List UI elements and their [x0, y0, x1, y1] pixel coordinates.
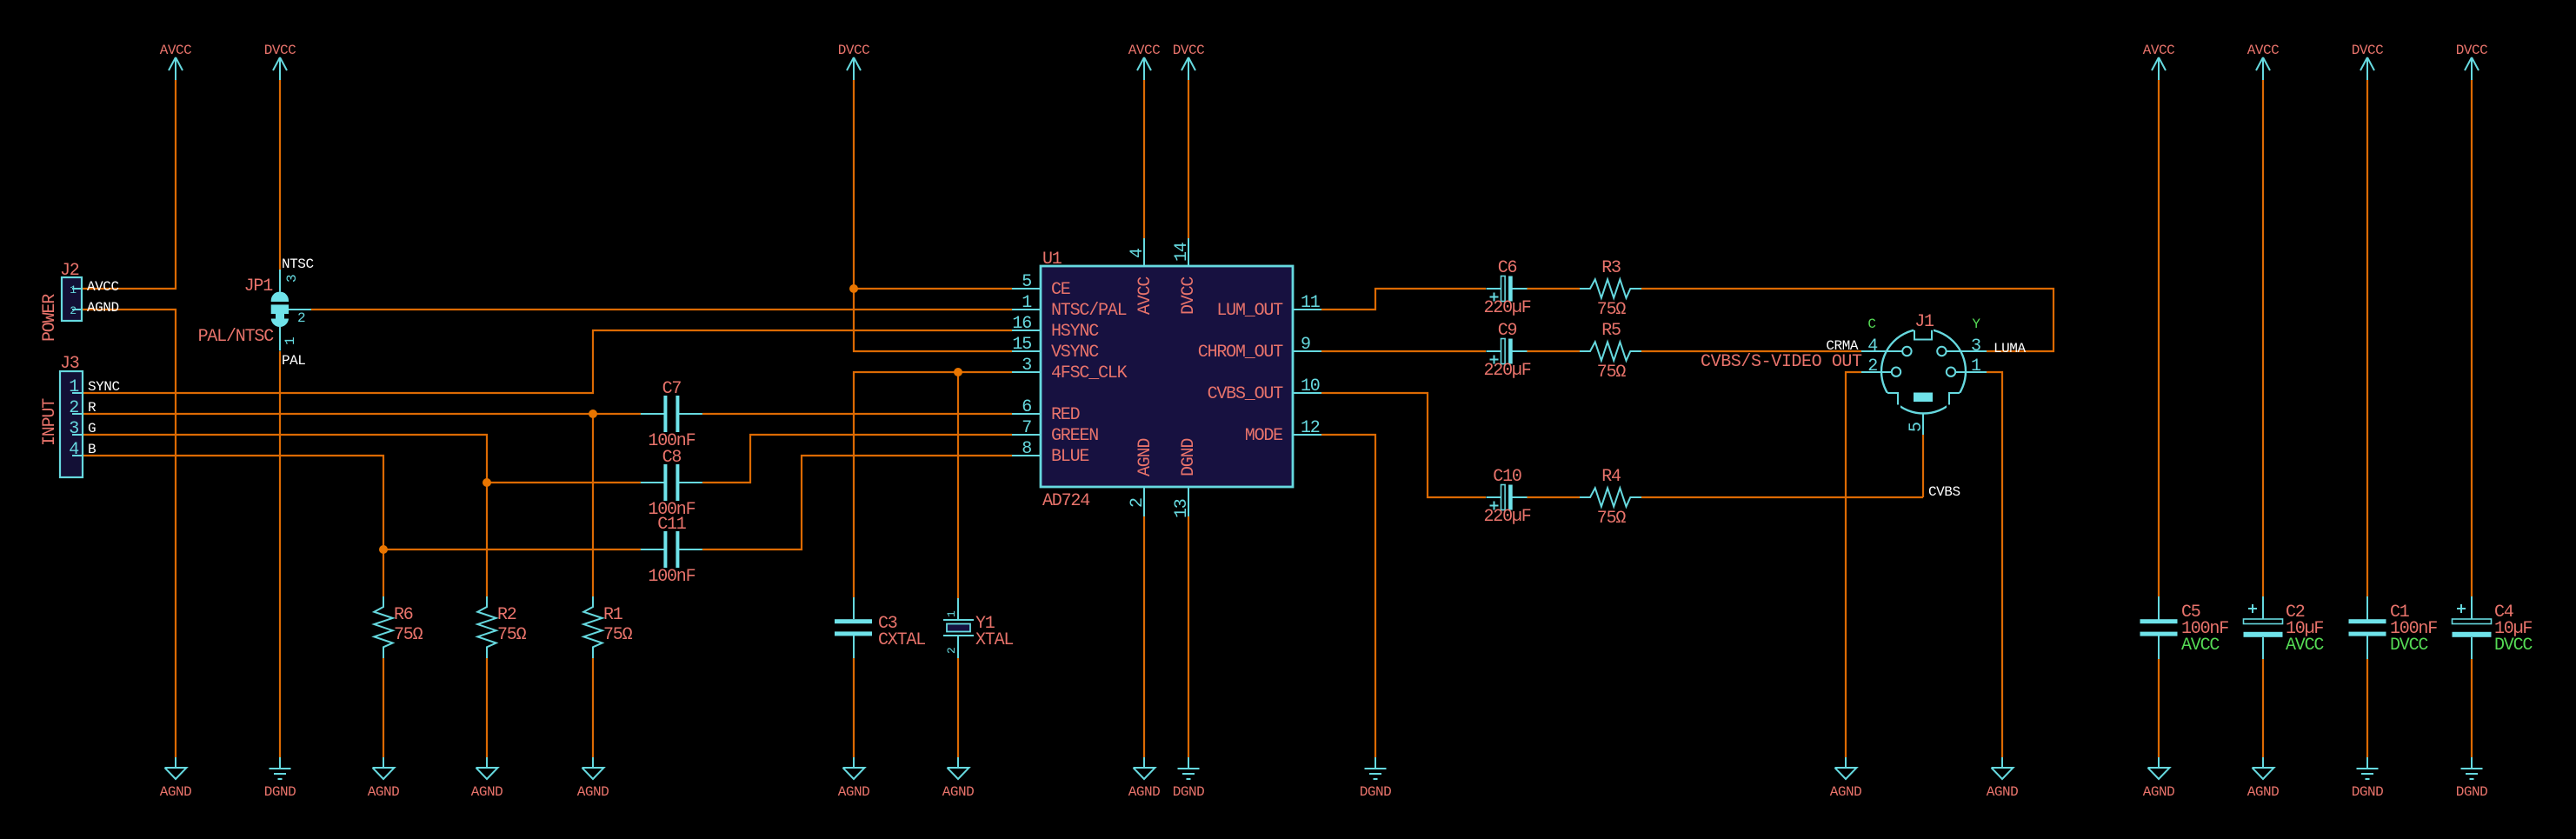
resistor R3 75R: [1580, 258, 1641, 320]
U1 pin 15 VSYNC: [1012, 335, 1099, 363]
svg-text:G: G: [88, 421, 96, 436]
svg-text:JP1: JP1: [244, 276, 274, 296]
svg-text:C10: C10: [1493, 467, 1521, 487]
wire DVCC to U1 pin14: [1188, 80, 1189, 238]
wire C9 to R5: [1527, 350, 1580, 352]
wire SYNC to HSYNC: [83, 330, 1012, 393]
wire DVCC rail to VSYNC: [854, 80, 1012, 351]
wire AVCC rail C2: [2262, 80, 2264, 596]
svg-text:1: 1: [1971, 356, 1981, 376]
ground DGND: [1173, 757, 1205, 800]
ground AGND: [368, 757, 400, 800]
svg-text:DGND: DGND: [1179, 439, 1199, 476]
svg-text:DVCC: DVCC: [1179, 276, 1199, 315]
svg-text:U1: U1: [1042, 250, 1062, 270]
svg-text:NTSC/PAL: NTSC/PAL: [1051, 301, 1127, 321]
svg-text:DVCC: DVCC: [838, 43, 870, 58]
svg-text:2: 2: [70, 304, 77, 317]
svg-text:CVBS_OUT: CVBS_OUT: [1208, 384, 1284, 404]
svg-text:5: 5: [1022, 272, 1031, 292]
svg-text:220µF: 220µF: [1483, 507, 1530, 527]
svg-text:12: 12: [1301, 418, 1320, 438]
svg-text:6: 6: [1022, 397, 1031, 417]
svg-text:B: B: [88, 442, 96, 457]
capacitor C3 CXTAL: [835, 597, 925, 658]
svg-text:3: 3: [69, 419, 78, 439]
svg-text:75Ω: 75Ω: [394, 625, 423, 645]
capacitor C6 220uF: [1483, 258, 1530, 318]
svg-text:BLUE: BLUE: [1051, 447, 1088, 467]
svg-text:AVCC: AVCC: [87, 279, 119, 295]
U1 pin 5 CE: [1012, 272, 1070, 300]
svg-text:R4: R4: [1601, 467, 1621, 487]
svg-text:2: 2: [1128, 498, 1148, 508]
wire Y1 to 4FSC node: [957, 372, 959, 598]
svg-text:10: 10: [1301, 376, 1320, 396]
svg-text:AVCC: AVCC: [2247, 43, 2280, 58]
U1 pin 2 AGND: [1128, 439, 1155, 516]
ground AGND: [1128, 757, 1161, 800]
svg-text:Y: Y: [1972, 316, 1980, 332]
capacitor C5 100nF: [2140, 596, 2229, 659]
svg-text:14: 14: [1172, 243, 1192, 262]
svg-text:AGND: AGND: [471, 784, 503, 800]
resistor R1 75R: [583, 596, 632, 658]
capacitor C1 100nF: [2349, 596, 2438, 659]
power flag DVCC: [2456, 43, 2488, 80]
svg-text:5: 5: [1907, 423, 1927, 432]
capacitor C9 220uF: [1483, 321, 1530, 381]
svg-text:R2: R2: [497, 605, 516, 625]
wire J1 pin1 to AGND: [1987, 372, 2002, 757]
svg-text:GREEN: GREEN: [1051, 426, 1098, 446]
svg-text:AVCC: AVCC: [2143, 43, 2175, 58]
svg-text:220µF: 220µF: [1483, 298, 1530, 318]
wire DVCC to JP1 pin3: [279, 80, 281, 270]
wire R6 to AGND: [383, 658, 384, 757]
wire R2 to AGND: [486, 658, 488, 757]
power flag DVCC: [838, 43, 870, 80]
wire JP1 pin1 PAL to DGND: [279, 351, 281, 757]
U1 pin 3 4FSC_CLK: [1012, 356, 1128, 383]
svg-text:MODE: MODE: [1245, 426, 1282, 446]
svg-text:DVCC: DVCC: [264, 43, 296, 58]
junction G/R2: [483, 478, 491, 487]
U1 pin 10 CVBS_OUT: [1208, 376, 1321, 404]
svg-text:HSYNC: HSYNC: [1051, 322, 1099, 342]
wire J1 pin5 to CVBS: [1922, 435, 1924, 497]
connector J3 INPUT: [40, 354, 120, 477]
svg-text:R: R: [88, 400, 97, 416]
svg-text:DVCC: DVCC: [2390, 636, 2428, 656]
wire G input: [83, 435, 641, 483]
wire C6 to R3: [1527, 288, 1580, 290]
power flag AVCC: [2143, 43, 2175, 80]
svg-text:CVBS/S-VIDEO OUT: CVBS/S-VIDEO OUT: [1701, 352, 1862, 372]
svg-text:J1: J1: [1914, 312, 1934, 332]
svg-text:AGND: AGND: [1128, 784, 1161, 800]
U1 pin 9 CHROM_OUT: [1198, 335, 1321, 363]
wire R5 to J1 pin4 CRMA: [1641, 350, 1861, 352]
power flag AVCC: [2247, 43, 2280, 80]
ground AGND: [471, 757, 503, 800]
svg-text:INPUT: INPUT: [40, 398, 60, 446]
capacitor C4 10uF: [2453, 596, 2533, 659]
svg-text:2: 2: [69, 398, 78, 418]
wire C8 to GREEN pin7: [702, 435, 1012, 483]
wire C7 to RED pin6: [702, 413, 1012, 415]
svg-text:8: 8: [1022, 439, 1031, 459]
wire DVCC rail C4: [2471, 80, 2473, 596]
ground AGND: [160, 757, 192, 800]
svg-text:C11: C11: [657, 515, 687, 535]
wire B to R6: [383, 549, 384, 596]
svg-text:2: 2: [297, 310, 306, 326]
wire U1 pin2 AGND: [1143, 516, 1145, 757]
ground AGND: [577, 757, 609, 800]
svg-text:AGND: AGND: [1830, 784, 1862, 800]
U1 pin 13 DGND: [1172, 439, 1199, 518]
U1 pin 8 BLUE: [1012, 439, 1088, 467]
wire R1 to AGND: [592, 658, 594, 757]
svg-text:LUMA: LUMA: [1994, 341, 2026, 356]
wire R3 to J1 pin3 LUMA: [1641, 289, 2053, 351]
power flag DVCC: [2352, 43, 2384, 80]
wire JP1 pin2 to NTSC/PAL pin1: [311, 309, 1012, 310]
wire C5 to AGND: [2158, 659, 2160, 757]
wire DVCC rail C1: [2366, 80, 2368, 596]
U1 pin 4 AVCC: [1128, 238, 1155, 315]
svg-text:C6: C6: [1498, 258, 1517, 278]
U1 pin 6 RED: [1012, 397, 1080, 425]
svg-text:3: 3: [1022, 356, 1031, 376]
svg-text:AGND: AGND: [838, 784, 870, 800]
net label CRMA: [1826, 338, 1858, 354]
wire J2 pin2 AGND down: [83, 310, 176, 757]
svg-text:XTAL: XTAL: [975, 630, 1013, 650]
svg-text:CHROM_OUT: CHROM_OUT: [1198, 343, 1283, 363]
ground AGND: [1830, 757, 1862, 800]
svg-text:AVCC: AVCC: [160, 43, 192, 58]
ground DGND: [1360, 757, 1392, 800]
net label CVBS: [1928, 484, 1960, 500]
svg-text:DVCC: DVCC: [2352, 43, 2384, 58]
svg-text:1: 1: [70, 283, 77, 296]
ground DGND: [2456, 757, 2488, 800]
svg-text:LUM_OUT: LUM_OUT: [1216, 301, 1283, 321]
junction 4FSC/Y1: [954, 368, 962, 376]
svg-text:7: 7: [1022, 418, 1031, 438]
ground DGND: [264, 757, 296, 800]
wire MODE to DGND: [1321, 435, 1375, 757]
capacitor C11 100nF: [641, 515, 702, 587]
svg-text:DGND: DGND: [264, 784, 296, 800]
capacitor C10 220uF: [1483, 467, 1530, 527]
svg-text:PAL: PAL: [282, 353, 305, 369]
svg-text:4FSC_CLK: 4FSC_CLK: [1051, 363, 1128, 383]
svg-text:J3: J3: [60, 354, 79, 374]
power flag AVCC: [1128, 43, 1161, 80]
resistor R2 75R: [477, 596, 526, 658]
capacitor C8 100nF: [641, 448, 702, 520]
svg-text:75Ω: 75Ω: [603, 625, 633, 645]
svg-text:VSYNC: VSYNC: [1051, 343, 1099, 363]
svg-text:11: 11: [1301, 293, 1321, 313]
svg-text:DGND: DGND: [1173, 784, 1205, 800]
resistor R4 75R: [1580, 467, 1641, 529]
svg-text:RED: RED: [1051, 405, 1080, 425]
net label LUMA: [1994, 341, 2026, 356]
wire C4 to DGND: [2471, 659, 2473, 757]
svg-text:100nF: 100nF: [648, 567, 695, 587]
wire C1 to DGND: [2366, 659, 2368, 757]
svg-text:DVCC: DVCC: [1173, 43, 1205, 58]
svg-text:R3: R3: [1601, 258, 1621, 278]
svg-text:C: C: [1867, 316, 1875, 332]
svg-text:SYNC: SYNC: [88, 379, 120, 395]
svg-text:AGND: AGND: [368, 784, 400, 800]
svg-text:C8: C8: [662, 448, 682, 468]
ground AGND: [838, 757, 870, 800]
svg-text:75Ω: 75Ω: [1597, 363, 1627, 383]
svg-text:AGND: AGND: [160, 784, 192, 800]
capacitor C7 100nF: [641, 379, 702, 451]
svg-text:AD724: AD724: [1042, 491, 1089, 511]
junction R/R1: [589, 410, 597, 418]
svg-text:AVCC: AVCC: [1128, 43, 1161, 58]
wire J1 pin2 to AGND: [1846, 372, 1861, 757]
svg-text:CVBS: CVBS: [1928, 484, 1960, 500]
power flag DVCC: [1173, 43, 1205, 80]
U1 pin 1 NTSC/PAL: [1012, 293, 1127, 321]
svg-text:3: 3: [1971, 336, 1980, 356]
svg-text:DGND: DGND: [2456, 784, 2488, 800]
text CVBS/S-VIDEO OUT: [1701, 352, 1862, 372]
svg-text:1: 1: [283, 336, 298, 345]
wire LUM_OUT to C6: [1321, 289, 1486, 310]
ground AGND: [2143, 757, 2175, 800]
svg-text:AGND: AGND: [2143, 784, 2175, 800]
wire CVBS_OUT to C10: [1321, 393, 1486, 497]
capacitor C2 10uF: [2244, 596, 2325, 659]
svg-text:DGND: DGND: [1360, 784, 1392, 800]
svg-text:AGND: AGND: [1987, 784, 2019, 800]
svg-text:C7: C7: [662, 379, 682, 399]
svg-text:220µF: 220µF: [1483, 361, 1530, 381]
ground AGND: [1987, 757, 2019, 800]
ground DGND: [2352, 757, 2384, 800]
svg-text:13: 13: [1172, 499, 1192, 518]
wire C3 to AGND: [853, 658, 855, 757]
power flag DVCC: [264, 43, 296, 80]
svg-text:2: 2: [1867, 356, 1877, 376]
svg-text:4: 4: [69, 440, 78, 460]
wire R4 to CVBS node: [1641, 496, 1923, 498]
wire B input: [83, 456, 641, 549]
svg-text:DGND: DGND: [2352, 784, 2384, 800]
U1 pin 7 GREEN: [1012, 418, 1098, 446]
IC U1 AD724: [1041, 250, 1293, 511]
svg-text:CE: CE: [1051, 280, 1070, 300]
svg-text:J2: J2: [60, 261, 79, 281]
svg-text:1: 1: [69, 377, 79, 397]
wire U1 pin13 DGND: [1188, 516, 1189, 757]
U1 pin 16 HSYNC: [1012, 314, 1099, 342]
svg-text:AGND: AGND: [87, 300, 119, 316]
ground AGND: [942, 757, 975, 800]
junction B/R6: [379, 545, 388, 554]
svg-text:CXTAL: CXTAL: [878, 630, 925, 650]
svg-text:2: 2: [945, 647, 958, 654]
wire AVCC rail to J2 pin1: [83, 80, 176, 289]
svg-text:R5: R5: [1601, 321, 1621, 341]
svg-text:C9: C9: [1498, 321, 1517, 341]
svg-text:AVCC: AVCC: [1135, 276, 1155, 315]
wire Y1 to AGND: [957, 658, 959, 757]
wire DVCC to CE pin5: [854, 288, 1012, 290]
connector J2 POWER: [40, 261, 119, 342]
wire CHROM_OUT to C9: [1321, 350, 1486, 352]
connector J1 CVBS/S-VIDEO OUT: [1861, 312, 1987, 435]
svg-text:16: 16: [1012, 314, 1031, 334]
wire C2 to AGND: [2262, 659, 2264, 757]
svg-text:AVCC: AVCC: [2286, 636, 2324, 656]
wire R input: [83, 413, 641, 415]
U1 pin 12 MODE: [1245, 418, 1321, 446]
svg-text:R6: R6: [394, 605, 413, 625]
wire C10 to R4: [1527, 496, 1580, 498]
ground AGND: [2247, 757, 2280, 800]
svg-text:AGND: AGND: [2247, 784, 2280, 800]
svg-text:NTSC: NTSC: [282, 256, 314, 272]
jumper JP1 PAL/NTSC: [198, 256, 314, 369]
wire G to R2: [486, 483, 488, 596]
junction DVCC/CE: [849, 284, 858, 293]
svg-text:1: 1: [945, 610, 958, 617]
wire AVCC to U1 pin4: [1143, 80, 1145, 238]
svg-text:DVCC: DVCC: [2456, 43, 2488, 58]
svg-text:PAL/NTSC: PAL/NTSC: [198, 327, 275, 347]
svg-text:3: 3: [284, 274, 300, 283]
power flag AVCC: [160, 43, 192, 80]
svg-text:15: 15: [1012, 335, 1031, 355]
resistor R5 75R: [1580, 321, 1641, 383]
svg-text:4: 4: [1128, 249, 1148, 258]
svg-text:4: 4: [1867, 336, 1877, 356]
wire AVCC rail C5: [2158, 80, 2160, 596]
svg-text:DVCC: DVCC: [2494, 636, 2533, 656]
svg-text:AGND: AGND: [942, 784, 975, 800]
svg-text:POWER: POWER: [40, 294, 60, 342]
wire C11 to BLUE pin8: [702, 456, 1012, 549]
svg-text:75Ω: 75Ω: [1597, 300, 1627, 320]
svg-text:1: 1: [1022, 293, 1032, 313]
wire R to R1: [592, 414, 594, 596]
U1 pin 14 DVCC: [1172, 238, 1199, 315]
wire 4FSC_CLK to C3: [854, 372, 1012, 597]
svg-text:75Ω: 75Ω: [497, 625, 527, 645]
svg-text:75Ω: 75Ω: [1597, 509, 1627, 529]
U1 pin 11 LUM_OUT: [1216, 293, 1321, 321]
svg-text:R1: R1: [603, 605, 623, 625]
svg-text:AVCC: AVCC: [2181, 636, 2220, 656]
crystal Y1 XTAL: [943, 598, 1013, 658]
resistor R6 75R: [374, 596, 423, 658]
svg-text:AGND: AGND: [577, 784, 609, 800]
svg-text:AGND: AGND: [1135, 439, 1155, 476]
svg-text:9: 9: [1301, 335, 1310, 355]
